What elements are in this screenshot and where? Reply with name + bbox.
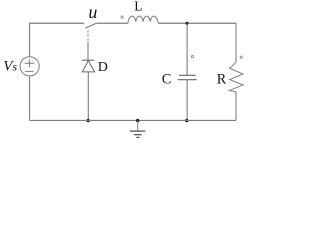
node junction dot top (cap branch)	[185, 22, 188, 25]
ground stem	[137, 120, 139, 131]
svg-text:Vs: Vs	[3, 59, 17, 75]
wire diode top	[87, 42, 89, 60]
switch contact dot (open circle)	[121, 16, 123, 18]
wire resistor bottom to rail	[235, 92, 237, 121]
svg-text:L: L	[134, 0, 142, 14]
wire top rail left (Vs to switch)	[30, 23, 85, 56]
resistor R zigzag	[229, 62, 243, 91]
capacitor C bottom plate	[178, 79, 197, 81]
capacitor C label	[162, 72, 171, 88]
svg-text:u: u	[88, 2, 97, 22]
node junction dot ground	[136, 119, 139, 122]
ground bar 1	[130, 130, 146, 132]
resistor contact dot (open circle)	[240, 56, 242, 58]
svg-text:D: D	[98, 60, 108, 75]
capacitor C top plate	[179, 74, 196, 76]
diode D triangle	[82, 61, 94, 72]
wire right corner to resistor	[235, 23, 237, 62]
node junction dot bottom diode	[86, 119, 89, 122]
voltage source plus sign	[25, 59, 35, 67]
wire Vs bottom to rail	[29, 76, 31, 121]
resistor R label	[217, 72, 227, 88]
wire capacitor top	[186, 23, 188, 75]
voltage source Vs circle	[20, 57, 39, 76]
ground bar 3	[136, 136, 139, 138]
diode D cathode bar	[82, 59, 94, 61]
diode D label	[98, 60, 108, 75]
svg-text:C: C	[162, 72, 171, 88]
voltage source Vs label	[3, 59, 17, 75]
wire inductor to right corner	[158, 22, 236, 24]
capacitor contact dot (open circle)	[191, 56, 193, 58]
wire diode bottom to rail	[87, 72, 89, 121]
ground bar 2	[134, 134, 142, 136]
inductor L	[128, 16, 158, 23]
switch u label	[88, 2, 97, 22]
inductor L label	[134, 0, 142, 14]
wire dashed switch throw to diode	[87, 30, 89, 40]
switch u blade	[85, 23, 96, 28]
node junction dot bottom cap	[185, 119, 188, 122]
wire capacitor bottom to rail	[186, 80, 188, 121]
wire switch to inductor	[96, 22, 128, 24]
wire bottom rail	[30, 119, 236, 121]
voltage source minus sign	[25, 70, 33, 72]
svg-text:R: R	[217, 72, 227, 88]
